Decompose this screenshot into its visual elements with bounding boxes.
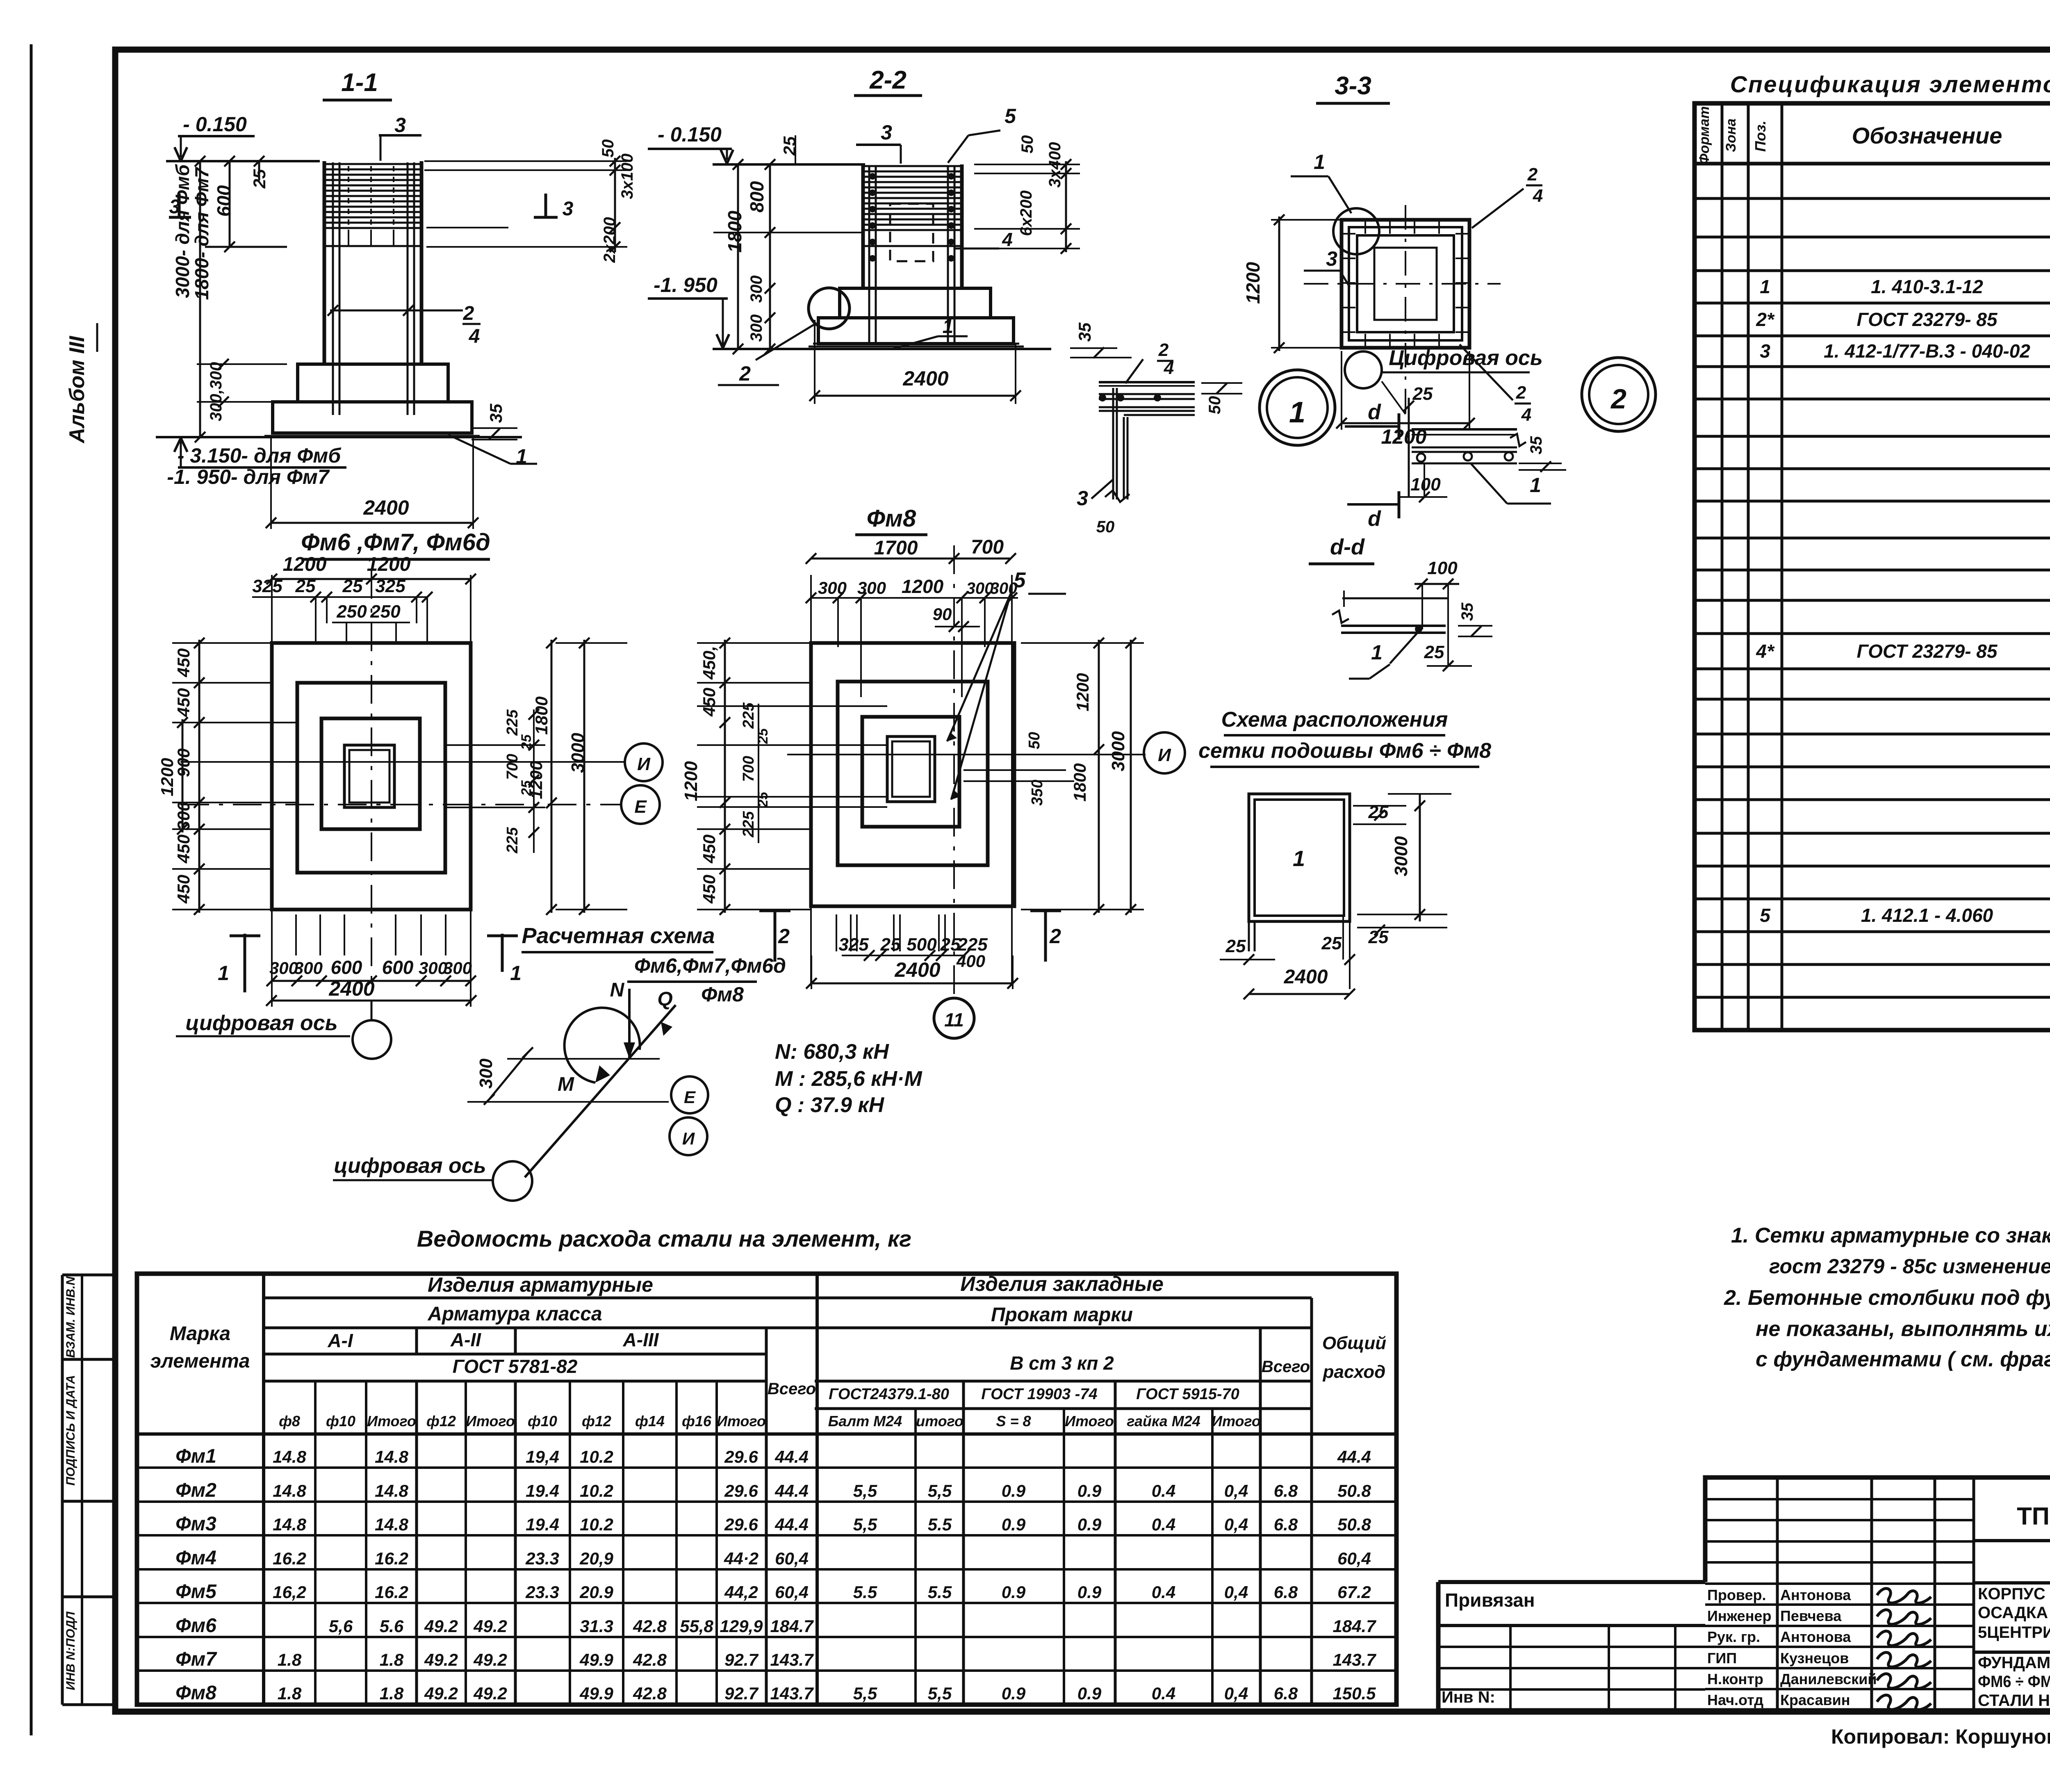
svg-text:25: 25 xyxy=(342,576,363,596)
svg-text:5,5: 5,5 xyxy=(928,1684,952,1703)
svg-text:Инженер: Инженер xyxy=(1707,1607,1771,1624)
svg-text:Привязан: Привязан xyxy=(1445,1589,1535,1611)
svg-text:29.6: 29.6 xyxy=(724,1515,758,1534)
svg-text:И: И xyxy=(1158,745,1171,765)
svg-text:5,6: 5,6 xyxy=(329,1616,353,1636)
svg-text:2: 2 xyxy=(1610,383,1626,415)
detail d-d plate xyxy=(1341,625,1446,627)
calc scheme axis circle E xyxy=(671,1076,708,1113)
axis circle 2 xyxy=(1582,358,1656,431)
steel table outer xyxy=(137,1274,1396,1705)
svg-text:1: 1 xyxy=(943,316,954,337)
svg-text:250: 250 xyxy=(336,602,367,622)
svg-text:14.8: 14.8 xyxy=(375,1447,408,1466)
calc scheme axis circle I xyxy=(670,1117,707,1155)
svg-text:Фм1: Фм1 xyxy=(175,1445,216,1467)
svg-text:2: 2 xyxy=(739,362,751,385)
svg-text:0.9: 0.9 xyxy=(1077,1515,1102,1534)
svg-text:1-1: 1-1 xyxy=(341,68,378,97)
steel table data row lines xyxy=(137,1466,1396,1469)
svg-text:67.2: 67.2 xyxy=(1337,1582,1371,1602)
unit1 plate band xyxy=(1412,428,1517,431)
plan2 section marks 2 xyxy=(774,909,777,962)
axis circle 1 xyxy=(1260,370,1335,445)
svg-text:1800: 1800 xyxy=(532,696,551,734)
plan1 axis I horizontal xyxy=(180,761,625,763)
svg-text:14.8: 14.8 xyxy=(273,1447,306,1466)
steel table group verticals xyxy=(415,1328,418,1354)
svg-text:1200: 1200 xyxy=(1073,673,1092,711)
svg-text:44.4: 44.4 xyxy=(1337,1447,1371,1466)
svg-text:1800- для Фм7: 1800- для Фм7 xyxy=(191,166,212,300)
svg-text:400: 400 xyxy=(956,951,985,971)
section 3-3 core xyxy=(1374,248,1437,320)
svg-text:Фм8: Фм8 xyxy=(701,983,744,1006)
svg-text:225: 225 xyxy=(504,709,521,736)
svg-text:23.3: 23.3 xyxy=(525,1582,559,1602)
spec table grid xyxy=(1695,103,2050,1030)
svg-text:1200: 1200 xyxy=(681,761,701,801)
svg-text:2400: 2400 xyxy=(328,977,374,1000)
mesh scheme left foot lines xyxy=(1248,921,1250,951)
plan1 step square xyxy=(297,683,445,873)
svg-text:49.2: 49.2 xyxy=(424,1650,458,1669)
svg-text:Кузнецов: Кузнецов xyxy=(1780,1650,1849,1667)
svg-text:6.8: 6.8 xyxy=(1274,1481,1298,1500)
svg-text:31.3: 31.3 xyxy=(580,1616,613,1636)
svg-text:Цифровая ось: Цифровая ось xyxy=(1389,346,1542,370)
svg-text:Зона: Зона xyxy=(1723,119,1739,152)
svg-text:2400: 2400 xyxy=(902,367,948,390)
section 1-1 column rebar xyxy=(332,162,334,415)
svg-text:350: 350 xyxy=(1029,780,1046,805)
title block tp number row xyxy=(1974,1539,2050,1542)
svg-text:с фундаментами ( см. фрагмент: с фундаментами ( см. фрагменты 3;4 лист … xyxy=(1756,1347,2050,1371)
plan2 left dim chain xyxy=(724,640,726,913)
svg-text:50: 50 xyxy=(1026,732,1043,749)
plan2 step square xyxy=(838,682,988,865)
svg-text:450,: 450, xyxy=(699,646,719,680)
svg-text:Изделия арматурные: Изделия арматурные xyxy=(428,1273,653,1296)
svg-text:600: 600 xyxy=(213,185,235,217)
svg-text:2: 2 xyxy=(463,303,474,324)
title block pривязан box xyxy=(1438,1624,1705,1627)
svg-text:В ст 3 кп 2: В ст 3 кп 2 xyxy=(1010,1352,1114,1374)
plan1 outer square xyxy=(272,643,471,910)
svg-text:29.6: 29.6 xyxy=(724,1447,758,1466)
svg-text:1700: 1700 xyxy=(874,537,918,559)
svg-text:5,5: 5,5 xyxy=(853,1515,877,1534)
svg-text:Всего: Всего xyxy=(1262,1358,1310,1376)
svg-text:6х200: 6х200 xyxy=(1017,190,1035,236)
svg-text:1. Сетки арматурные со знако: 1. Сетки арматурные со знаком * выполнит… xyxy=(1731,1224,2050,1247)
svg-text:25: 25 xyxy=(1225,936,1246,956)
svg-text:14.8: 14.8 xyxy=(273,1515,306,1534)
svg-text:3000: 3000 xyxy=(1391,836,1411,876)
svg-text:ТП 902- 5 ~ 47. 87: ТП 902- 5 ~ 47. 87 xyxy=(2017,1502,2050,1530)
svg-text:Данилевский: Данилевский xyxy=(1780,1671,1877,1687)
svg-text:гост 23279 - 85с изменением: гост 23279 - 85с изменением длины выпуск… xyxy=(1769,1255,2050,1278)
section 3-3 cage outer xyxy=(1342,220,1469,348)
left stamp column boxes xyxy=(61,1275,64,1705)
svg-text:Общий: Общий xyxy=(1322,1333,1386,1353)
svg-text:- 0.150: - 0.150 xyxy=(183,113,247,136)
svg-text:0,4: 0,4 xyxy=(1224,1515,1248,1534)
plan1 bottom rebar ticks xyxy=(295,914,297,955)
svg-text:1200: 1200 xyxy=(526,761,546,799)
svg-text:3: 3 xyxy=(563,198,574,220)
plan1 cifrovaya os circle xyxy=(353,1020,391,1059)
svg-text:d: d xyxy=(1368,400,1381,424)
plan1 dim 1200 left xyxy=(182,719,184,832)
section 1-1 ground level line xyxy=(156,436,522,438)
svg-text:1200: 1200 xyxy=(1242,262,1264,304)
svg-text:ф12: ф12 xyxy=(426,1413,456,1429)
svg-text:Итого: Итого xyxy=(466,1413,515,1429)
svg-text:2: 2 xyxy=(1516,383,1526,403)
section 3-3 center lines xyxy=(1405,205,1406,414)
plan2 axis vertical xyxy=(953,545,955,999)
svg-text:СТАЛИ НА ЭЛЕМЕНТ , КГ.: СТАЛИ НА ЭЛЕМЕНТ , КГ. xyxy=(1978,1692,2050,1710)
svg-text:25: 25 xyxy=(755,728,771,744)
svg-text:700: 700 xyxy=(740,756,757,782)
axis circle 11 xyxy=(934,998,974,1038)
svg-text:ф12: ф12 xyxy=(582,1413,611,1429)
svg-text:1. 410-3.1-12: 1. 410-3.1-12 xyxy=(1871,276,1983,297)
svg-text:0.9: 0.9 xyxy=(1077,1582,1102,1602)
svg-text:14.8: 14.8 xyxy=(273,1481,306,1500)
svg-text:2: 2 xyxy=(778,925,790,948)
svg-text:6.8: 6.8 xyxy=(1274,1582,1298,1602)
section 2-2 leader 4 xyxy=(954,248,999,250)
svg-text:- 0.150: - 0.150 xyxy=(658,123,722,146)
svg-text:60,4: 60,4 xyxy=(775,1582,809,1602)
svg-text:50.8: 50.8 xyxy=(1337,1515,1371,1534)
svg-text:Фм4: Фм4 xyxy=(175,1547,216,1569)
svg-text:300: 300 xyxy=(294,958,323,978)
sheet trim line left xyxy=(30,44,33,1735)
svg-text:ГОСТ 19903 -74: ГОСТ 19903 -74 xyxy=(981,1386,1097,1403)
svg-text:M : 285,6 кН·М: M : 285,6 кН·М xyxy=(775,1067,922,1091)
svg-text:450: 450 xyxy=(699,875,719,904)
svg-text:16.2: 16.2 xyxy=(273,1549,306,1568)
svg-text:1200: 1200 xyxy=(283,554,327,575)
svg-text:0.9: 0.9 xyxy=(1077,1684,1102,1703)
svg-text:Балт М24: Балт М24 xyxy=(828,1413,902,1429)
section 2-2 level line top xyxy=(713,163,865,166)
svg-text:143.7: 143.7 xyxy=(770,1650,814,1669)
svg-text:Е: Е xyxy=(684,1088,696,1107)
svg-text:20.9: 20.9 xyxy=(579,1582,613,1602)
svg-text:-1. 950: -1. 950 xyxy=(654,274,717,296)
svg-text:450: 450 xyxy=(174,834,193,864)
svg-text:ГОСТ 23279- 85: ГОСТ 23279- 85 xyxy=(1857,309,1998,330)
svg-text:Инв N:: Инв N: xyxy=(1442,1688,1495,1706)
svg-text:50: 50 xyxy=(1018,135,1036,154)
svg-text:300: 300 xyxy=(476,1058,496,1089)
svg-text:5: 5 xyxy=(1004,105,1016,128)
svg-text:цифровая ось: цифровая ось xyxy=(334,1154,486,1178)
svg-text:29.6: 29.6 xyxy=(724,1481,758,1500)
section 1-1 column xyxy=(323,161,326,364)
svg-text:0.9: 0.9 xyxy=(1002,1481,1026,1500)
svg-text:35: 35 xyxy=(1458,602,1476,621)
svg-text:92.7: 92.7 xyxy=(724,1684,758,1703)
svg-text:3: 3 xyxy=(169,196,180,218)
svg-text:2: 2 xyxy=(1158,340,1169,360)
svg-text:92.7: 92.7 xyxy=(724,1650,758,1669)
svg-text:2400: 2400 xyxy=(1284,966,1328,988)
svg-text:1. 412.1 - 4.060: 1. 412.1 - 4.060 xyxy=(1861,905,1993,926)
axis circle I plan1 xyxy=(625,743,663,781)
svg-text:Формат: Формат xyxy=(1697,106,1712,164)
svg-text:4: 4 xyxy=(1002,229,1013,250)
svg-text:300: 300 xyxy=(857,578,886,597)
svg-text:0.9: 0.9 xyxy=(1002,1684,1026,1703)
svg-text:сетки подошвы Фм6 ÷ Фм8: сетки подошвы Фм6 ÷ Фм8 xyxy=(1198,739,1491,763)
svg-text:129,9: 129,9 xyxy=(720,1616,763,1636)
svg-text:25: 25 xyxy=(1321,933,1342,953)
svg-text:0,4: 0,4 xyxy=(1224,1481,1248,1500)
svg-text:ФМ6 ÷ ФМ 8. ВЕДОМОСТЬ РАСХОДА: ФМ6 ÷ ФМ 8. ВЕДОМОСТЬ РАСХОДА xyxy=(1978,1673,2050,1691)
svg-text:Итого: Итого xyxy=(717,1413,766,1429)
plan1 section marks 1 xyxy=(244,934,246,992)
svg-text:42.8: 42.8 xyxy=(633,1616,667,1636)
section 2-2 footing step xyxy=(840,288,991,318)
svg-text:1: 1 xyxy=(1371,641,1383,664)
plan2 right dim chain 1200 3000 1800 xyxy=(1098,640,1100,913)
svg-text:44.4: 44.4 xyxy=(774,1447,809,1466)
section 1-1 leader 2-4 right xyxy=(330,310,463,312)
svg-text:2: 2 xyxy=(1049,925,1061,948)
plan1 axis E horizontal xyxy=(180,804,622,805)
svg-text:49.2: 49.2 xyxy=(473,1616,507,1636)
svg-text:цифровая ось: цифровая ось xyxy=(185,1011,337,1035)
section 2-2 ground line xyxy=(713,348,1051,350)
svg-text:60,4: 60,4 xyxy=(1337,1549,1371,1568)
svg-text:3000: 3000 xyxy=(568,733,588,773)
axis circle E plan1 xyxy=(621,785,660,824)
svg-text:1200: 1200 xyxy=(157,758,177,796)
svg-text:25: 25 xyxy=(295,576,316,596)
svg-text:Расчетная схема: Расчетная схема xyxy=(522,923,715,948)
svg-text:Копировал: Коршунова: Копировал: Коршунова xyxy=(1831,1725,2050,1748)
svg-text:143.7: 143.7 xyxy=(1332,1650,1376,1669)
svg-text:2-2: 2-2 xyxy=(869,66,907,94)
svg-text:0.4: 0.4 xyxy=(1152,1582,1175,1602)
svg-text:5,5: 5,5 xyxy=(928,1481,952,1500)
svg-text:Q: Q xyxy=(657,988,672,1010)
svg-text:300: 300 xyxy=(443,958,472,978)
svg-text:90: 90 xyxy=(933,604,952,624)
svg-text:450: 450 xyxy=(174,875,193,904)
svg-text:А-II: А-II xyxy=(450,1329,481,1350)
section 2-2 footing base xyxy=(818,318,1014,344)
section 2-2 column xyxy=(861,164,865,288)
svg-text:не показаны, выполнять их сле: не показаны, выполнять их следует в одно… xyxy=(1756,1317,2050,1341)
svg-text:ГОСТ 5915-70: ГОСТ 5915-70 xyxy=(1136,1386,1239,1403)
steel table diameter verticals xyxy=(314,1381,317,1705)
svg-text:ИНВ N:ПОДЛ: ИНВ N:ПОДЛ xyxy=(64,1611,77,1690)
svg-text:1: 1 xyxy=(1293,846,1305,871)
svg-text:А-I: А-I xyxy=(327,1330,353,1351)
svg-text:Прокат марки: Прокат марки xyxy=(991,1304,1133,1326)
svg-text:d: d xyxy=(1368,507,1381,531)
svg-text:ф8: ф8 xyxy=(279,1413,300,1429)
svg-text:Марка: Марка xyxy=(170,1323,230,1345)
svg-text:ф10: ф10 xyxy=(326,1413,355,1429)
svg-text:225: 225 xyxy=(504,827,521,853)
section 3-3 bars ticks xyxy=(1364,221,1366,234)
svg-text:450: 450 xyxy=(699,834,719,864)
svg-text:Изделия закладные: Изделия закладные xyxy=(960,1272,1164,1295)
plan2 axis I horizontal xyxy=(787,754,1146,755)
svg-text:5.5: 5.5 xyxy=(853,1582,877,1602)
svg-text:1: 1 xyxy=(516,445,527,468)
svg-text:Певчева: Певчева xyxy=(1780,1607,1842,1624)
svg-text:А-III: А-III xyxy=(623,1329,659,1350)
title block staff grid xyxy=(1776,1477,1779,1710)
section 1-1 column ties hatch xyxy=(326,163,420,165)
svg-text:450: 450 xyxy=(174,688,193,717)
svg-text:300: 300 xyxy=(966,579,994,597)
svg-text:Нач.отд: Нач.отд xyxy=(1707,1692,1763,1708)
svg-text:итого: итого xyxy=(916,1413,963,1429)
svg-text:100: 100 xyxy=(1410,474,1441,495)
svg-text:25: 25 xyxy=(1412,384,1433,404)
svg-text:1: 1 xyxy=(1314,150,1325,173)
svg-text:55,8: 55,8 xyxy=(680,1616,713,1636)
svg-text:25: 25 xyxy=(1424,642,1444,662)
svg-text:23.3: 23.3 xyxy=(525,1549,559,1568)
svg-text:5,5: 5,5 xyxy=(853,1684,877,1703)
svg-text:0.4: 0.4 xyxy=(1152,1684,1175,1703)
svg-text:5.6: 5.6 xyxy=(380,1616,404,1636)
svg-text:325: 325 xyxy=(838,935,869,955)
title block left grid xyxy=(1438,1646,1705,1648)
svg-text:0.4: 0.4 xyxy=(1152,1481,1175,1500)
svg-text:143.7: 143.7 xyxy=(770,1684,814,1703)
svg-text:3: 3 xyxy=(881,121,892,144)
svg-text:1: 1 xyxy=(510,962,522,985)
svg-text:ф16: ф16 xyxy=(682,1413,712,1429)
svg-text:600: 600 xyxy=(331,957,362,978)
svg-text:Фм7: Фм7 xyxy=(175,1648,217,1670)
svg-text:19.4: 19.4 xyxy=(526,1515,559,1534)
section 1-1 right dim bundle xyxy=(424,160,627,162)
svg-text:300: 300 xyxy=(747,315,765,342)
svg-text:5,5: 5,5 xyxy=(853,1481,877,1500)
svg-text:Рук. гр.: Рук. гр. xyxy=(1707,1628,1760,1645)
svg-text:N: N xyxy=(610,979,625,1001)
svg-text:3-3: 3-3 xyxy=(1335,72,1371,100)
section 1-1 footing base xyxy=(273,402,472,433)
section 2-2 column ties hatch xyxy=(865,165,960,167)
svg-text:Фм3: Фм3 xyxy=(175,1513,216,1535)
svg-text:3: 3 xyxy=(394,114,406,137)
svg-text:100: 100 xyxy=(1427,558,1458,578)
svg-text:60,4: 60,4 xyxy=(775,1549,809,1568)
svg-text:2400: 2400 xyxy=(894,958,940,981)
svg-text:10.2: 10.2 xyxy=(580,1447,613,1466)
detail d-d top line xyxy=(1342,597,1448,600)
svg-text:Антонова: Антонова xyxy=(1780,1587,1851,1603)
svg-text:4: 4 xyxy=(469,326,480,347)
corner unit vertical legs xyxy=(1112,388,1114,499)
svg-text:44·2: 44·2 xyxy=(724,1549,758,1568)
svg-text:Фм8: Фм8 xyxy=(175,1682,216,1704)
svg-text:0.4: 0.4 xyxy=(1152,1515,1175,1534)
svg-text:184.7: 184.7 xyxy=(1332,1616,1376,1636)
svg-text:700: 700 xyxy=(971,536,1004,558)
plan2 column rect xyxy=(887,736,935,802)
svg-text:700: 700 xyxy=(504,754,521,780)
svg-text:3000- для Фмб: 3000- для Фмб xyxy=(172,164,193,298)
svg-text:ФУНДАМЕНТЫ МОНОЛИТНЫЕ: ФУНДАМЕНТЫ МОНОЛИТНЫЕ xyxy=(1978,1654,2050,1672)
svg-text:1800: 1800 xyxy=(1070,763,1089,801)
svg-text:800: 800 xyxy=(746,181,768,212)
svg-text:Поз.: Поз. xyxy=(1752,121,1769,152)
svg-text:300,300: 300,300 xyxy=(207,362,225,422)
svg-text:Провер.: Провер. xyxy=(1707,1587,1766,1603)
plan1 left dim chain xyxy=(198,640,200,913)
section 2-2 right dim bundle xyxy=(974,164,1080,165)
svg-text:Н.контр: Н.контр xyxy=(1707,1671,1763,1687)
section 1-1 column top level line xyxy=(166,160,320,162)
section 2-2 left dims xyxy=(737,164,739,349)
svg-text:-1. 950- для Фм7: -1. 950- для Фм7 xyxy=(167,465,330,488)
svg-text:5.5: 5.5 xyxy=(928,1515,952,1534)
svg-text:16,2: 16,2 xyxy=(273,1582,306,1602)
corner unit mesh band xyxy=(1099,381,1195,383)
svg-text:11: 11 xyxy=(944,1009,964,1031)
svg-text:ОСАДКА СТОЧНЫХ ВОД С: ОСАДКА СТОЧНЫХ ВОД С xyxy=(1978,1604,2050,1622)
svg-text:150.5: 150.5 xyxy=(1332,1684,1376,1703)
svg-text:Фм2: Фм2 xyxy=(175,1480,216,1501)
axis circle I plan2 xyxy=(1144,732,1185,773)
svg-text:И: И xyxy=(682,1129,695,1148)
svg-text:0,4: 0,4 xyxy=(1224,1684,1248,1703)
svg-text:10.2: 10.2 xyxy=(580,1481,613,1500)
svg-text:ф10: ф10 xyxy=(528,1413,557,1429)
svg-text:49.2: 49.2 xyxy=(424,1616,458,1636)
title block outer borders xyxy=(1438,1582,2050,1710)
svg-text:225: 225 xyxy=(740,811,757,837)
svg-text:50.8: 50.8 xyxy=(1337,1481,1371,1500)
section 1-1 leader 1 xyxy=(448,435,510,464)
svg-text:3: 3 xyxy=(1326,247,1337,270)
mesh scheme plate xyxy=(1249,794,1350,921)
svg-text:Красавин: Красавин xyxy=(1780,1692,1850,1708)
svg-text:184.7: 184.7 xyxy=(770,1616,814,1636)
svg-text:49.2: 49.2 xyxy=(473,1684,507,1703)
svg-text:600: 600 xyxy=(382,957,414,978)
svg-text:300: 300 xyxy=(990,579,1018,597)
svg-text:44.4: 44.4 xyxy=(774,1515,809,1534)
svg-text:Итого: Итого xyxy=(1212,1413,1261,1429)
svg-text:1.8: 1.8 xyxy=(278,1684,302,1703)
svg-text:Обозначение: Обозначение xyxy=(1852,123,2002,148)
section 1-1 footing step xyxy=(298,364,448,402)
svg-text:Всего: Всего xyxy=(768,1380,816,1398)
plan2 inner square xyxy=(862,717,959,827)
svg-text:325: 325 xyxy=(375,576,405,596)
svg-text:КОРПУС ОБЕЗВОЖИВАНИЯ: КОРПУС ОБЕЗВОЖИВАНИЯ xyxy=(1978,1585,2050,1603)
svg-text:14.8: 14.8 xyxy=(375,1481,408,1500)
svg-text:Альбом III: Альбом III xyxy=(65,335,89,444)
svg-text:16.2: 16.2 xyxy=(375,1582,408,1602)
svg-text:325: 325 xyxy=(252,576,282,596)
